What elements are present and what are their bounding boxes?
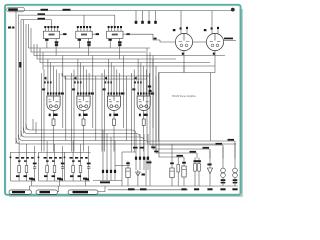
cell 3 bottom rail xyxy=(65,180,91,182)
cell 1 label near rail xyxy=(29,178,33,180)
wire PSU drop 2 xyxy=(222,145,224,159)
wire channel drop to tube pin xyxy=(113,66,115,84)
pin 1 of V6 xyxy=(137,84,139,96)
CM2 top lead xyxy=(171,161,173,168)
tube V4 heater circle left xyxy=(79,105,82,108)
wire PSU feed line 5 xyxy=(159,73,184,158)
right stub of T1 xyxy=(60,33,63,35)
cell 3 top distribution wire xyxy=(65,152,91,154)
power tube V5 envelope xyxy=(107,96,120,111)
bottom pin b of T1 xyxy=(55,38,57,41)
net label 3 above V5 xyxy=(110,81,112,83)
cell 1 top distribution wire xyxy=(11,152,37,154)
cell 3 label b xyxy=(75,157,78,159)
label below-right of T3 xyxy=(118,41,122,43)
net label above tube xyxy=(105,77,107,79)
cell 3 left rail xyxy=(64,152,66,181)
cell 2 Rb bottom lead xyxy=(54,173,56,182)
wire channel drop to tube pin xyxy=(88,73,90,84)
label below-left of T1 xyxy=(45,39,48,41)
net label 3 above V6 xyxy=(140,81,142,83)
wire PSU drop 4 xyxy=(196,153,198,159)
CM1 bottom lead xyxy=(127,178,129,187)
PSU small cap CS2 xyxy=(198,164,201,172)
wire bottom output bus xyxy=(30,185,239,187)
wire plate drop b right of tube xyxy=(65,76,67,141)
power tube V3 envelope xyxy=(47,96,60,111)
cell 1 node tick xyxy=(10,157,12,159)
bottom pin b of T3 xyxy=(118,38,120,41)
wire sub vertical a xyxy=(145,157,147,186)
D1 value label xyxy=(207,188,212,190)
cell 2 label b xyxy=(49,157,52,159)
CR1 top lead xyxy=(183,158,185,166)
resistor under T1 xyxy=(55,44,58,47)
label test point TP4 xyxy=(154,21,157,24)
label test point TP3 xyxy=(148,21,151,24)
wire channel drop to tube pin xyxy=(137,59,139,84)
pin label 4 of T3 xyxy=(117,26,119,28)
pin 3 of V4 xyxy=(83,84,85,96)
wire channel drop to tube pin xyxy=(47,59,49,84)
label below-right of T2 xyxy=(87,41,91,43)
wire channel drop to tube pin xyxy=(119,73,121,84)
cathode label of V2 xyxy=(213,53,215,55)
CP2 bottom lead xyxy=(222,178,224,187)
CS1 top lead xyxy=(194,158,196,164)
cathode lead of V1 xyxy=(183,51,185,56)
wire cell feed b xyxy=(131,73,133,152)
tube V4 plate lead xyxy=(83,96,85,101)
pin 5 of V4 xyxy=(88,84,90,96)
cell 1 Rb top lead xyxy=(26,144,28,166)
input tube V2 envelope xyxy=(206,33,223,50)
tube V5 heater circle right xyxy=(115,105,118,108)
cell 2 Cc bottom lead xyxy=(62,168,64,181)
cell 3 sublabel a xyxy=(72,160,75,161)
label B+ 305V on top line xyxy=(63,9,71,11)
wire left bus vertical 2 xyxy=(18,15,20,140)
wire channel drop to tube pin xyxy=(85,70,87,85)
CM1 value label xyxy=(126,162,130,164)
wire cell feed b xyxy=(101,73,103,152)
cathode resistor of V5 xyxy=(113,119,116,125)
wire group B line 2 xyxy=(139,134,141,170)
tube V5 plate lead xyxy=(113,96,115,101)
wire plate drop b right of tube xyxy=(95,76,97,141)
wire plate drop right of tube xyxy=(62,56,64,129)
connector J3 text xyxy=(73,191,89,193)
pin label 1 of T1 xyxy=(44,26,46,28)
wire T2b to channel xyxy=(88,46,90,55)
label test point TP2 xyxy=(141,21,144,24)
pin label 2 of T2 xyxy=(80,26,82,28)
cell 1 to output bus xyxy=(31,181,33,186)
pin 4 of T2 xyxy=(86,28,88,31)
wire channel drop to tube pin xyxy=(55,70,57,85)
wire left bus vertical 1 xyxy=(15,14,17,144)
CP3 band label xyxy=(233,179,238,181)
pin 2 of V6 xyxy=(140,84,142,96)
CS value label xyxy=(194,188,199,190)
CP3 top lead xyxy=(234,143,236,168)
pin 3 of V6 xyxy=(143,84,145,96)
wire channel drop to tube pin xyxy=(53,66,55,84)
wire T2 to channel xyxy=(78,41,80,48)
cathode arrow mark of V3 xyxy=(49,114,51,117)
pin label 5 of V6 xyxy=(148,92,150,94)
wire lower channel line 4 with elbows xyxy=(19,135,149,145)
pin label 2 of V6 xyxy=(140,92,142,94)
tube V5 heater circle left xyxy=(110,105,113,108)
wire left bus vertical 4 xyxy=(23,20,25,134)
CP3 value label xyxy=(232,188,237,190)
pin 5 of V6 xyxy=(148,84,150,96)
cell 2 resistor Ra xyxy=(46,166,49,173)
wire channel drop to CM2 xyxy=(171,144,173,161)
cell 3 Cc top lead xyxy=(88,146,90,167)
cell 3 node tick xyxy=(64,157,66,159)
small cap group A 2 xyxy=(106,170,108,173)
wire bottom ground bus right xyxy=(108,189,188,191)
tube V6 heater circle left xyxy=(140,105,143,108)
pin top right of V2 xyxy=(217,29,219,34)
pin label 4 of V5 xyxy=(116,92,118,94)
wire right of group A xyxy=(121,152,123,186)
border frame shadow xyxy=(9,9,242,196)
wire channel drop to tube pin xyxy=(110,63,112,85)
CP2 value label xyxy=(220,188,225,190)
wire aux stub near tube xyxy=(135,77,137,81)
pin label 4 of T1 xyxy=(54,26,56,28)
R PSU top lead xyxy=(177,157,179,165)
wire upper channel line 5 xyxy=(40,48,210,63)
pin label 2 of T1 xyxy=(47,26,49,28)
wire lower channel line 2 with elbows xyxy=(24,128,141,138)
CR1 value label xyxy=(181,188,186,190)
wire to cathode resistor V5 xyxy=(113,114,115,119)
pin 2 of V4 xyxy=(80,84,82,96)
right label at pin row of V3 xyxy=(61,92,64,94)
cell 2 sublabel b xyxy=(52,160,55,161)
pin 3 of V5 xyxy=(113,84,115,96)
cell 1 Cc bottom lead xyxy=(34,168,36,181)
cell 1 bottom rail xyxy=(11,180,37,182)
pin label 1 of V4 xyxy=(77,92,79,94)
pin label 5 of V5 xyxy=(119,92,121,94)
pin label 3 of V3 xyxy=(53,92,55,94)
pin 4 of V4 xyxy=(85,84,87,96)
cell 1 resistor Rb xyxy=(25,166,28,173)
output connector J1 xyxy=(9,190,32,194)
wire channel drop to tube pin xyxy=(143,66,145,84)
pin 5 of T2 xyxy=(89,28,91,31)
resistor under T2 xyxy=(87,44,90,47)
small cap group B 3 xyxy=(143,157,145,160)
PSU small cap CS1 xyxy=(194,164,197,172)
PSU filter cap CP2 lower circle xyxy=(221,173,226,178)
cathode arrow mark of V5 xyxy=(109,114,111,117)
pin label 5 of T2 xyxy=(89,26,91,28)
wire below cathode resistor V3 xyxy=(53,125,55,127)
wire aux stub near tube xyxy=(106,77,108,81)
wire T3b to channel xyxy=(118,46,120,59)
wire middle-right vertical to PSU xyxy=(158,73,160,142)
CP3 band label 2 xyxy=(233,182,238,184)
cell 3 label near rail xyxy=(83,178,87,180)
pin 4 of V5 xyxy=(116,84,118,96)
pin 2 of V5 xyxy=(110,84,112,96)
transformer T3 value text xyxy=(112,34,118,36)
designator V1 xyxy=(173,29,176,31)
tube type label left xyxy=(132,88,135,90)
tube V3 plate lead xyxy=(53,96,55,101)
tube V6 grid dashes xyxy=(139,100,149,102)
pin label 4 of V6 xyxy=(146,92,148,94)
wire drop to tube V2 plate xyxy=(211,11,213,34)
wire group A line 2 xyxy=(106,134,108,181)
CR1 bottom lead xyxy=(183,177,185,186)
cell 3 to output bus xyxy=(85,181,87,186)
cathode label of V5 xyxy=(114,114,119,116)
cell 2 capacitor Cc xyxy=(61,167,64,168)
cathode lead of V5 xyxy=(113,111,115,115)
sub labels xyxy=(147,162,152,164)
wire T1 to channel xyxy=(46,41,48,48)
CM2 bottom lead xyxy=(171,178,173,187)
cell 1 resistor Ra xyxy=(18,166,21,173)
voltage label PSU line 1 xyxy=(228,139,235,141)
wire V1 down xyxy=(183,56,185,73)
transformer T1 value text xyxy=(49,34,55,36)
tube type label left xyxy=(42,88,45,90)
transformer box T3 body xyxy=(107,31,123,38)
wire tube cathode down to cell xyxy=(53,128,55,152)
pin label 3 of T3 xyxy=(114,26,116,28)
wire PSU feed line 4 xyxy=(156,66,197,153)
cell 3 cap label xyxy=(87,163,91,165)
cathode label of V6 xyxy=(143,114,148,116)
pin 1 of V3 xyxy=(47,84,49,96)
cell 1 label b xyxy=(21,157,24,159)
wire T1b to channel xyxy=(55,46,57,55)
wire upper channel line 4 xyxy=(37,44,176,59)
wire bus bend upper channel line 1 xyxy=(29,24,151,48)
wire cell feed a xyxy=(43,70,45,152)
cell 3 Ra bottom lead xyxy=(72,173,74,182)
wire plate drop right of tube xyxy=(122,56,124,129)
net label 2 above V5 xyxy=(108,81,110,83)
wire cell feed a xyxy=(73,70,75,152)
resistor R PSU xyxy=(177,165,180,173)
cell 1 Rb bottom lead xyxy=(26,173,28,182)
pin label 2 of V4 xyxy=(80,92,82,94)
pin 3 of T3 xyxy=(114,28,116,31)
D1 top lead xyxy=(209,151,211,168)
cell 2 Cc top lead xyxy=(62,146,64,167)
label on left bus xyxy=(19,62,21,68)
cell 1 value label a xyxy=(16,175,20,177)
designator V2 xyxy=(204,29,207,31)
net label 1 above V6 xyxy=(134,81,136,83)
connector J2 text xyxy=(40,191,51,193)
cathode lead of V3 xyxy=(53,111,55,115)
wire tube cathode down to cell xyxy=(143,128,145,152)
cell 1 value label b xyxy=(24,175,28,177)
cell 2 node tick xyxy=(38,157,40,159)
wire link right xyxy=(122,151,136,153)
wire group A line 3 xyxy=(110,137,112,181)
title text xyxy=(8,8,18,11)
wire V2 down and left xyxy=(159,56,216,73)
cell 1 Ra top lead xyxy=(18,141,20,166)
wire lower channel line A xyxy=(62,73,150,76)
pin 5 of V3 xyxy=(58,84,60,96)
pin label 2 of T3 xyxy=(111,26,113,28)
rectifier diode D1 xyxy=(207,168,212,174)
CP3 bottom lead xyxy=(234,178,236,187)
pin label 5 of T1 xyxy=(57,26,59,28)
wire bus tap to top line xyxy=(16,11,24,15)
power tube V4 envelope xyxy=(77,96,90,110)
cell 1 capacitor Cc xyxy=(33,167,36,168)
wire cell feed b xyxy=(71,73,73,152)
svg-text:PCL86 Stereo Amplifier: PCL86 Stereo Amplifier xyxy=(172,95,196,98)
net label 2 above V3 xyxy=(47,81,49,83)
cell 3 Ra top lead xyxy=(72,141,74,166)
wire to cathode resistor V6 xyxy=(143,114,145,119)
pin label top left of V2 xyxy=(211,27,213,29)
pin label top right of V1 xyxy=(186,27,188,29)
label on wire to V1 xyxy=(154,38,157,40)
transformer box T2 body xyxy=(76,31,92,38)
cell 3 value label b xyxy=(78,175,82,177)
label beside diode xyxy=(142,174,145,176)
cell 3 value label a xyxy=(70,175,74,177)
wire through diode xyxy=(137,170,139,186)
wire short link y165 xyxy=(115,165,130,167)
pin label 4 of T2 xyxy=(86,26,88,28)
pin label 2 of V3 xyxy=(50,92,52,94)
wire net line 3 xyxy=(19,13,115,16)
group B top labels b xyxy=(140,147,145,149)
wire PSU feed line 1 xyxy=(147,48,235,141)
D1 bottom lead xyxy=(209,174,211,186)
cell 1 label d xyxy=(31,157,34,159)
pin label 3 of V6 xyxy=(143,92,145,94)
cell 3 label d xyxy=(85,157,88,159)
wire left joiner b xyxy=(35,122,37,134)
pin label 4 of V4 xyxy=(85,92,87,94)
net label 2 above V6 xyxy=(137,81,139,83)
label below-left of T3 xyxy=(108,39,111,41)
wire aux stub near tube xyxy=(45,77,47,81)
net label 1 above V4 xyxy=(74,81,76,83)
wire group A line 1 xyxy=(102,130,104,181)
pin label 3 of T1 xyxy=(51,26,53,28)
resistor under T3 xyxy=(118,44,121,47)
wire PSU drop 3 xyxy=(209,149,211,159)
pin label 1 of T3 xyxy=(108,26,110,28)
margin note a xyxy=(8,27,11,29)
cathode resistor of V6 xyxy=(142,119,145,125)
net label above tube xyxy=(45,77,47,79)
wire drop to tube V1 plate xyxy=(180,11,182,34)
pin 4 of T3 xyxy=(117,28,119,31)
label below-right of T1 xyxy=(55,41,59,43)
wire channel drop to tube pin xyxy=(146,70,148,85)
cell 1 Cc top lead xyxy=(34,146,36,167)
wire cell feed a xyxy=(133,70,135,152)
tube V5 heater link xyxy=(113,105,115,107)
wire below cathode resistor V4 xyxy=(83,125,85,127)
wire channel drop to tube pin xyxy=(140,63,142,85)
output connector J3 xyxy=(68,190,98,194)
pin 4 of T1 xyxy=(54,28,56,31)
pin 1 of T3 xyxy=(108,28,110,31)
pin 1 of T1 xyxy=(44,28,46,31)
cathode lead of V4 xyxy=(83,111,85,115)
wire PSU drop 5 xyxy=(183,157,185,159)
pin 5 of T1 xyxy=(57,28,59,31)
tube V4 grid dashes xyxy=(79,100,89,102)
CP2 band label xyxy=(221,179,226,181)
pin 1 of V4 xyxy=(77,84,79,96)
cell 3 sublabel b xyxy=(78,160,81,161)
cell 2 bottom rail xyxy=(39,180,65,182)
net label 3 above V3 xyxy=(50,81,52,83)
label right of T1 xyxy=(63,33,66,35)
cell 2 cap label xyxy=(61,163,65,165)
CP2 band label 2 xyxy=(221,182,226,184)
cathode lead of V6 xyxy=(143,111,145,115)
pin 5 of T3 xyxy=(120,28,122,31)
wire group B line 4 xyxy=(147,134,149,170)
wire channel drop to tube pin xyxy=(58,73,60,84)
wire aux stub near tube xyxy=(75,77,77,81)
test point stub TP3 xyxy=(148,11,150,21)
pin label 5 of V4 xyxy=(88,92,90,94)
wire tube cathode down to cell xyxy=(83,128,85,152)
cell 3 Rb top lead xyxy=(80,144,82,166)
pin 4 of V3 xyxy=(55,84,57,96)
label right of T3 xyxy=(126,33,129,35)
small cap group B 2 xyxy=(139,157,141,160)
cell 3 label a xyxy=(70,157,73,159)
CS1 bottom lead xyxy=(194,171,196,178)
CS2 bottom lead xyxy=(198,171,200,178)
small cap group B 4 xyxy=(147,157,149,160)
cell 1 left rail xyxy=(10,152,12,181)
net label above tube xyxy=(135,77,137,79)
bottom label b2 xyxy=(140,188,147,190)
wire T3 to tube V1 grid xyxy=(126,34,175,42)
cathode lead of V2 xyxy=(214,51,216,56)
tube V1 heater circles xyxy=(180,44,183,47)
small cap group B 1 xyxy=(135,157,137,160)
wire plate drop b right of tube xyxy=(125,76,127,141)
wire channel drop to tube pin xyxy=(80,63,82,85)
wire group A line 4 xyxy=(114,141,116,181)
cathode label of V1 xyxy=(182,53,184,55)
pin label 3 of V5 xyxy=(113,92,115,94)
test point stub TP4 xyxy=(155,11,157,21)
pin label 4 of V3 xyxy=(55,92,57,94)
pin label 1 of V6 xyxy=(137,92,139,94)
wire stub channel xyxy=(42,66,44,70)
wire to cathode resistor V4 xyxy=(83,114,85,119)
pin label 1 of V3 xyxy=(47,92,49,94)
